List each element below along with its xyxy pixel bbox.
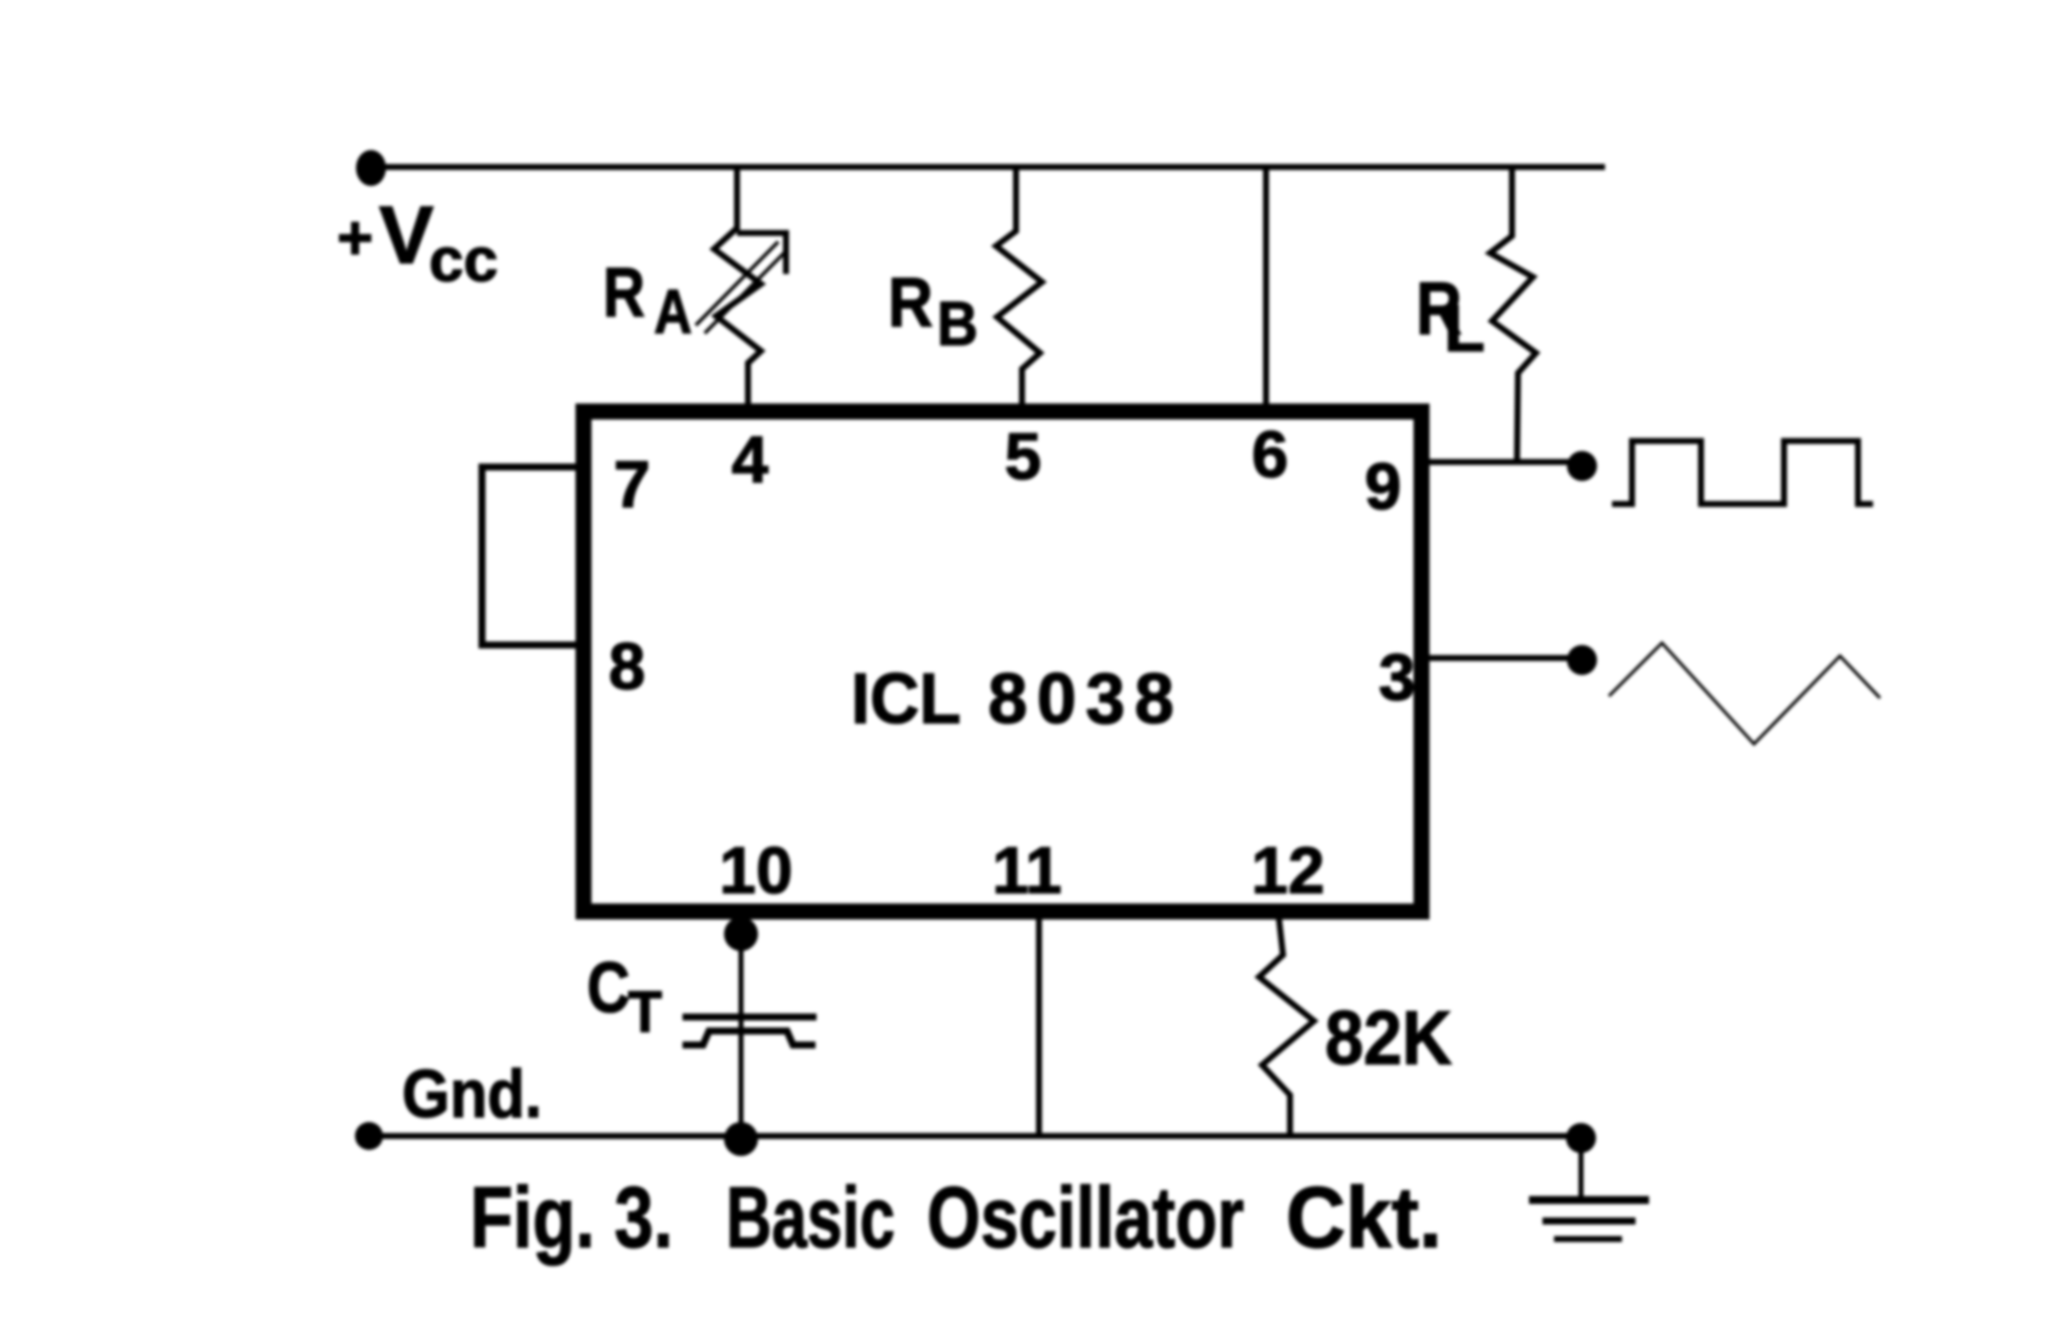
svg-text:B: B <box>937 290 978 359</box>
svg-text:V: V <box>379 190 434 281</box>
wire pins 7-8 strap <box>482 467 580 645</box>
label +Vcc <box>337 190 498 295</box>
svg-text:cc: cc <box>429 226 498 295</box>
capacitor CT <box>686 919 813 1136</box>
wire +Vcc top rail <box>371 164 1602 170</box>
label RB <box>888 263 978 359</box>
wire pin 9 output <box>1426 459 1582 465</box>
caption Fig. 3. Basic Oscillator Ckt. <box>470 1170 1442 1266</box>
resistor RA (variable) <box>697 167 786 410</box>
svg-text:3: 3 <box>1379 640 1416 714</box>
svg-text:7: 7 <box>614 447 651 521</box>
node ground right junction dot <box>1566 1123 1596 1153</box>
svg-text:Fig. 3.: Fig. 3. <box>470 1170 673 1266</box>
svg-text:4: 4 <box>732 422 769 496</box>
label ICL 8038 <box>851 660 1174 739</box>
svg-text:10: 10 <box>719 833 792 907</box>
wire pin 6 to +Vcc rail <box>1263 167 1269 410</box>
label RA <box>603 253 692 347</box>
node ground left terminal dot <box>355 1122 383 1150</box>
svg-text:12: 12 <box>1251 833 1324 907</box>
node pin 3 dot <box>1567 645 1597 675</box>
node pin 9 dot <box>1567 451 1597 481</box>
node +Vcc terminal dot <box>356 150 386 186</box>
svg-text:6: 6 <box>1252 417 1289 491</box>
svg-text:Oscillator: Oscillator <box>927 1170 1244 1266</box>
resistor 82K <box>1259 919 1314 1136</box>
svg-text:9: 9 <box>1365 449 1402 523</box>
wire pin 3 output <box>1426 655 1582 661</box>
svg-text:+: + <box>337 204 373 273</box>
label CT <box>587 949 662 1045</box>
svg-text:Basic: Basic <box>726 1170 895 1266</box>
svg-text:C: C <box>587 949 630 1028</box>
square wave symbol <box>1615 441 1870 504</box>
svg-text:Gnd.: Gnd. <box>402 1056 542 1132</box>
svg-text:8: 8 <box>609 629 646 703</box>
label RL <box>1416 267 1485 365</box>
svg-text:A: A <box>654 278 692 347</box>
svg-text:R: R <box>888 263 933 341</box>
svg-text:11: 11 <box>992 833 1062 907</box>
resistor RL <box>1490 167 1536 460</box>
node pin 10 junction dot <box>724 917 758 951</box>
op-amp U1 IC box ICL 8038 <box>584 412 1422 912</box>
resistor RB <box>996 167 1042 410</box>
svg-text:82K: 82K <box>1325 996 1452 1081</box>
svg-text:8038: 8038 <box>988 660 1174 739</box>
svg-text:ICL: ICL <box>851 660 961 739</box>
svg-text:Ckt.: Ckt. <box>1286 1170 1442 1266</box>
svg-text:R: R <box>603 253 645 331</box>
svg-text:L: L <box>1444 291 1485 365</box>
svg-text:5: 5 <box>1005 419 1042 493</box>
node CT ground junction dot <box>724 1122 758 1156</box>
triangle wave symbol <box>1610 643 1879 744</box>
wire ground rail <box>369 1133 1581 1139</box>
wire pin 11 to ground <box>1036 919 1042 1136</box>
ground symbol <box>1533 1138 1645 1239</box>
svg-text:T: T <box>628 980 662 1045</box>
